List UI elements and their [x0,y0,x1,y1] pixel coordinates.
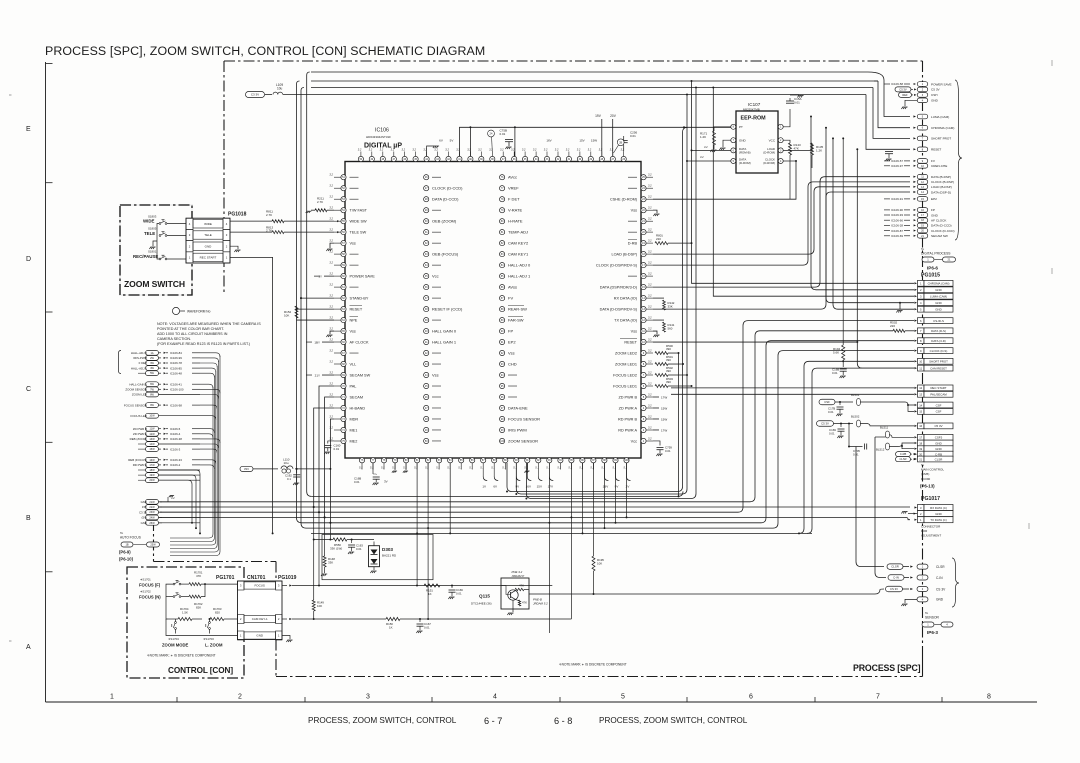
wire pin10 RESET long right [653,341,857,343]
svg-text:5.1: 5.1 [447,466,451,470]
svg-text:CAM KEY1: CAM KEY1 [508,251,529,256]
svg-text:(ROM-B): (ROM-B) [739,150,751,154]
svg-text:3.2: 3.2 [648,173,652,177]
svg-text:F DET: F DET [508,196,520,201]
svg-text:CLOCK (D-CCD): CLOCK (D-CCD) [931,229,955,233]
svg-text:CSH: CSH [931,93,938,97]
svg-text:0.01: 0.01 [424,625,430,629]
svg-text:SENSOR: SENSOR [925,616,940,620]
svg-text:RX DATA (IO): RX DATA (IO) [614,296,638,300]
svg-text:100: 100 [625,459,630,462]
svg-text:REF: REF [902,93,908,97]
svg-text:22W: 22W [149,506,155,509]
node 7W pin [146,387,159,392]
svg-text:IP6-3: IP6-3 [927,630,938,635]
svg-text:3.2: 3.2 [648,217,652,221]
svg-text:6 - 7: 6 - 7 [484,716,502,726]
svg-text:390: 390 [666,380,671,384]
svg-text:IC106-98: IC106-98 [170,403,182,407]
svg-text:FP: FP [931,208,935,212]
svg-text:RD PWR B: RD PWR B [618,417,637,421]
svg-text:24W: 24W [149,516,155,519]
svg-text:WAVEFORM No: WAVEFORM No [187,310,211,314]
svg-text:7W: 7W [150,388,154,391]
svg-text:15V: 15V [579,139,584,143]
svg-text:3.2: 3.2 [412,148,416,152]
svg-text:20W: 20W [149,479,155,482]
svg-text:3.2: 3.2 [329,250,333,254]
svg-text:3.2: 3.2 [648,206,652,210]
IC106 inner pin list column A [424,175,429,180]
svg-text:5.1: 5.1 [425,466,429,470]
off-page 21Y at SECAM SW [322,374,334,376]
wire RESET to left riser [297,308,335,310]
svg-text:3.2: 3.2 [329,228,333,232]
svg-text:3.2: 3.2 [329,184,333,188]
svg-text:AVss: AVss [508,284,517,289]
resistor R195 10K [593,534,595,556]
svg-text:7: 7 [876,694,880,701]
svg-text:∗S1701: ∗S1701 [140,578,151,582]
wire vertical risers 19V 20V [601,119,603,158]
junction focus riser [417,585,552,587]
svg-text:(P6-10): (P6-10) [119,557,134,562]
svg-text:FOR: FOR [921,529,928,533]
wire corner at x678 (bus end riser) [678,491,683,496]
svg-text:10u: 10u [284,461,289,465]
ground at IP6-3 GND [905,599,917,603]
svg-text:REC START: REC START [930,386,946,390]
wire vertical x691.5 (bus riser) [692,81,915,283]
svg-text:C5 3V: C5 3V [931,88,941,92]
svg-text:BL501: BL501 [851,393,860,397]
wire pin18 LOAD to DSP oval [653,187,910,254]
svg-text:2.7K: 2.7K [266,213,272,217]
svg-text:CAMERA SECTION.: CAMERA SECTION. [157,337,191,341]
svg-text:H-RATE: H-RATE [508,218,523,223]
svg-text:SECAM SW: SECAM SW [931,234,948,238]
svg-text:TELE: TELE [204,233,212,237]
svg-text:ZOOM LED2: ZOOM LED2 [615,351,637,355]
wire vertical x330 to D303 line [329,523,331,540]
svg-text:CSF5: CSF5 [935,436,943,440]
svg-text:F DET: F DET [139,361,148,365]
wire top bundle y87.5 [311,87,873,89]
svg-text:PG1015: PG1015 [921,273,940,279]
ferrite bead BL512 [886,443,890,450]
svg-text:DTC144EE (36): DTC144EE (36) [471,602,492,606]
capacitor C160 0.01 on ME2 [328,441,334,444]
svg-text:3W: 3W [150,362,154,365]
svg-text:IC106-38: IC106-38 [170,437,182,441]
svg-text:IC106-69: IC106-69 [891,234,903,238]
node 18W pin [146,468,159,473]
svg-text:3.2: 3.2 [555,148,559,152]
resistors R500-R504 390 on LED pins [655,352,668,355]
svg-text:23W: 23W [149,511,155,514]
svg-text:(FOR EXAMPLE READ R123 IS R112: (FOR EXAMPLE READ R123 IS R1123 IN PARTS… [157,342,250,346]
ferrite bead BL501 [857,399,861,406]
svg-text:FOCUS (F): FOCUS (F) [139,583,161,588]
svg-text:C5 3V: C5 3V [899,87,907,91]
svg-text:GND: GND [205,244,213,248]
svg-text:21W: 21W [149,501,155,504]
svg-text:CLOCK (B-DSP): CLOCK (B-DSP) [931,180,954,184]
capacitor C705 0.01 [849,424,863,447]
svg-text:16: 16 [919,424,922,428]
svg-text:IC106-93: IC106-93 [891,213,903,217]
wire pin17 CLOCK to DSP oval [653,182,910,265]
svg-text:33K: 33K [328,560,333,564]
svg-text:To: To [921,463,925,467]
wires left column bundle to auto focus [200,353,220,357]
wire nested vertical x678 from LED wires down [678,353,680,496]
svg-text:ME1: ME1 [350,428,358,432]
ground pin22 Vss [653,210,657,213]
svg-text:IC106-100: IC106-100 [170,388,184,392]
svg-text:CSF: CSF [936,403,942,407]
svg-text:FOCUS SENSOR: FOCUS SENSOR [124,403,147,407]
svg-text:PROCESS [SPC], ZOOM SWITCH, CO: PROCESS [SPC], ZOOM SWITCH, CONTROL [CON… [45,44,485,58]
capacitor C166 0.01 [451,585,453,587]
svg-text:3.2: 3.2 [329,338,333,342]
svg-text:(CM5): (CM5) [921,472,929,476]
svg-text:DATA (DSP/RDR/3-D): DATA (DSP/RDR/3-D) [600,285,638,289]
svg-text:BA221 RD: BA221 RD [382,554,397,558]
ground at pin57 Vss [330,243,334,248]
svg-text:CN1701: CN1701 [247,575,266,581]
node 11W pin [146,426,159,431]
svg-text:18W: 18W [149,469,155,472]
svg-text:DATA (D-DSP/RDV-S): DATA (D-DSP/RDV-S) [600,307,638,311]
svg-text:560: 560 [668,326,673,330]
svg-text:FP: FP [508,328,513,333]
IC106 inner pin list column B [500,175,505,180]
wire riser to C-IN IP6-3 [875,437,886,578]
control block outline [127,567,244,678]
IC106 left edge inner labels [350,176,359,178]
wire C3.3V rail y94.5 [265,94,272,96]
capacitor C160b 0.01 bottom left [372,463,374,474]
svg-text:3.2: 3.2 [610,148,614,152]
wire PG1018 REC START down to bus [272,258,274,533]
svg-text:IC106-3: IC106-3 [170,447,181,451]
svg-text:15W: 15W [149,448,155,451]
node 13W pin [146,437,159,442]
svg-text:BL502: BL502 [851,415,860,419]
svg-text:GND: GND [931,213,939,217]
svg-text:10u: 10u [277,87,283,91]
svg-text:FOCUS LED2: FOCUS LED2 [613,373,637,377]
svg-text:GND: GND [935,447,941,451]
svg-text:15W: 15W [661,406,667,410]
svg-text:ZD PWR A: ZD PWR A [133,432,147,436]
resistor R150 1K [386,617,400,620]
svg-text:NPE: NPE [350,318,358,322]
svg-text:OEB (FOCUS): OEB (FOCUS) [432,251,459,256]
svg-text:IC106-66: IC106-66 [891,218,903,222]
svg-text:(D-ROM): (D-ROM) [739,161,751,165]
svg-text:WIDE: WIDE [204,222,212,226]
svg-text:HALL-GAIN 1: HALL-GAIN 1 [129,382,147,386]
svg-text:3.2: 3.2 [566,148,570,152]
wires 21W-25W to buses [159,501,163,503]
node 6W pin [146,382,159,387]
svg-text:IC106-87: IC106-87 [891,229,903,233]
svg-text:M9255K7MB: M9255K7MB [743,108,760,112]
svg-text:OEB (ZOOM): OEB (ZOOM) [432,218,457,223]
node 23W pin [146,510,159,515]
svg-text:1K: 1K [389,625,393,629]
svg-text:5.6K: 5.6K [833,351,839,355]
svg-text:3.2: 3.2 [329,294,333,298]
svg-text:3.2: 3.2 [648,228,652,232]
svg-text:47K: 47K [794,147,799,151]
svg-text:33K: 33K [668,304,673,308]
svg-text:REC/PAUSE: REC/PAUSE [133,254,158,259]
wire FOCUS net right [282,585,287,587]
svg-text:3.2: 3.2 [329,283,333,287]
wire vertical from bottom pin to FOCUS [416,463,418,586]
svg-text:3.2: 3.2 [599,148,603,152]
ground at pin65 Vss [330,331,334,334]
svg-text:VCC: VCC [769,138,776,142]
wire bundle right corner to SHORT PROT [873,88,910,139]
svg-text:C5 3V: C5 3V [821,422,829,426]
svg-text:5.1: 5.1 [624,466,628,470]
svg-text:GND: GND [935,308,941,312]
svg-text:ZOOM LED1: ZOOM LED1 [615,362,637,366]
svg-text:CAM KEY-1: CAM KEY-1 [252,617,268,621]
svg-text:IC106-58: IC106-58 [891,82,903,86]
svg-text:0.01: 0.01 [354,480,360,484]
svg-text:IC106: IC106 [375,128,389,134]
wire top bundle y72 [311,71,868,73]
svg-text:100: 100 [500,440,505,443]
wire PAL down to control area [319,386,334,512]
svg-text:1BV: 1BV [603,485,609,489]
pin reference bubble 24 [488,130,495,137]
svg-text:15W: 15W [591,139,597,143]
node 22W pin [146,505,159,510]
pin reference bubble 2B [617,139,624,146]
svg-text:TELE SW: TELE SW [350,230,367,234]
svg-text:5.1: 5.1 [590,466,594,470]
svg-text:MAIN CONTROL: MAIN CONTROL [921,468,944,472]
svg-text:15W: 15W [661,417,667,421]
wire PG1018 GND [230,246,238,249]
svg-text:C3 3V: C3 3V [251,93,259,97]
svg-text:19: 19 [919,447,922,451]
svg-text:5.1: 5.1 [524,466,528,470]
svg-text:15V: 15V [537,485,542,489]
svg-text:To: To [120,531,124,535]
svg-text:0.01: 0.01 [665,449,671,453]
svg-text:17W: 17W [149,464,155,467]
svg-text:8: 8 [987,694,991,701]
wire vertical x552 from pin down [548,463,550,633]
svg-text:12: 12 [919,386,922,390]
svg-text:RESET: RESET [624,340,637,344]
svg-text:IC106-90: IC106-90 [891,208,903,212]
svg-text:11: 11 [919,366,922,370]
svg-text:LOAD (B-DSP): LOAD (B-DSP) [931,185,952,189]
svg-text:ADD 1000 TO ALL CIRCUIT NUMBER: ADD 1000 TO ALL CIRCUIT NUMBERS IN [157,332,228,336]
wire bottom descender k20 bus [582,463,584,533]
svg-text:S1801: S1801 [148,250,157,254]
svg-text:Vss: Vss [508,350,515,355]
svg-text:To: To [921,247,925,251]
svg-text:1V: 1V [482,485,486,489]
svg-text:3.2: 3.2 [329,272,333,276]
arrows into IP6-6 [913,115,916,117]
svg-text:HI-BAND: HI-BAND [350,406,366,410]
resistor R135 1.2K [783,143,812,150]
svg-text:DATA (B-DSP): DATA (B-DSP) [931,175,951,179]
svg-text:BL512: BL512 [876,448,885,452]
svg-text:IC106-97: IC106-97 [891,164,903,168]
switch bottoms to GND row [175,629,177,633]
diode D303 BA221 [369,546,380,567]
resistor R194 5.6K [842,138,844,345]
svg-text:Vcc: Vcc [631,439,637,443]
svg-text:3: 3 [366,694,370,701]
off-page 1BY at AF CLOCK [322,341,334,343]
svg-text:IC106-2: IC106-2 [170,463,181,467]
svg-text:(D-ROM): (D-ROM) [763,150,775,154]
wire vertical x833 to PG1015 row5 [833,138,914,309]
svg-text:IC106-84: IC106-84 [170,351,182,355]
svg-text:PG1019: PG1019 [278,575,297,581]
svg-text:220: 220 [656,237,661,241]
svg-text:Vss: Vss [350,241,356,245]
svg-text:3.2: 3.2 [329,173,333,177]
svg-text:9W: 9W [150,404,154,407]
svg-text:3.2: 3.2 [511,148,515,152]
svg-text:CHROMA (CAM): CHROMA (CAM) [931,126,954,130]
resistor R151 1K [424,584,440,587]
svg-text:6V: 6V [493,485,497,489]
svg-text:10W: 10W [149,415,155,418]
svg-text:E: E [26,126,31,133]
svg-text:ZOOM SENSOR: ZOOM SENSOR [508,438,538,443]
svg-text:RD PWR A: RD PWR A [618,428,637,432]
svg-text:CLSR: CLSR [891,565,898,569]
resistor R801 220 on D-RB [655,242,668,245]
node range ovals IP6-6 [922,257,934,262]
switch S1704 ZOOM MODE vertical [175,622,177,624]
IC IC107 EEP-ROM body [736,111,778,173]
wire RESET riser to CAM RESET row [857,149,914,368]
svg-text:3.2: 3.2 [329,261,333,265]
svg-text:C-IN: C-IN [893,576,899,580]
svg-text:3.2: 3.2 [648,283,652,287]
svg-text:FOCUS: FOCUS [254,584,265,588]
wire IC107 pin6 [692,149,731,151]
svg-text:(P6-9): (P6-9) [119,550,131,555]
resistor R171 1.2K at IC107 pin8 [714,127,731,131]
svg-text:EEP-ROM: EEP-ROM [741,116,767,122]
svg-text:1K: 1K [428,592,432,596]
svg-text:CS 3V: CS 3V [890,587,898,591]
svg-text:D303: D303 [382,547,393,552]
svg-text:6: 6 [749,694,753,701]
svg-text:0.01: 0.01 [334,447,340,451]
svg-text:DIGITAL PROCESS: DIGITAL PROCESS [921,252,951,256]
svg-text:T/W FAST: T/W FAST [350,208,368,212]
IC107 left pins [731,124,736,129]
svg-text:3.2: 3.2 [648,195,652,199]
wire HI-BAND down [314,408,334,507]
IC106 top pin stubs [360,152,362,157]
svg-text:REC START: REC START [200,256,217,260]
svg-text:CSHE (D-ROM): CSHE (D-ROM) [610,197,638,201]
svg-text:1.5K: 1.5K [182,610,188,614]
brace IP6-6 [955,80,962,240]
wire MDR down [330,419,334,523]
svg-text:FV: FV [508,295,513,300]
svg-text:CS 3V: CS 3V [936,587,946,591]
wire Q115 output to CS 3V [529,589,884,594]
svg-text:17: 17 [919,436,922,440]
svg-text:16V: 16V [526,485,531,489]
svg-text:(P6-13): (P6-13) [920,484,935,489]
wire bus risers to PG1015 rows 6-11 [750,331,893,502]
board outline dash-dot top [224,60,923,62]
svg-text:DATA (D-CCD): DATA (D-CCD) [432,196,459,201]
svg-text:3.2: 3.2 [329,305,333,309]
svg-text:20V: 20V [610,114,617,118]
wire L110 rail [253,468,278,470]
wire STAND-BY to left riser [301,297,334,299]
node 2W pin [146,356,159,361]
switch common wires [157,224,159,260]
svg-text:ME2: ME2 [350,439,358,443]
svg-text:(D-ROM): (D-ROM) [763,161,775,165]
svg-text:390: 390 [666,369,671,373]
svg-text:2: 2 [238,694,242,701]
svg-text:3.2: 3.2 [329,195,333,199]
svg-text:3.2: 3.2 [456,148,460,152]
svg-text:3.2: 3.2 [522,148,526,152]
wire WIDE SW to PG1018 [284,220,334,222]
IC106 left pin stubs [334,176,341,178]
svg-text:FAR-SW: FAR-SW [508,317,524,322]
ground at PG1015 rows4-5 [899,303,901,310]
resistor R149 10K [312,600,315,611]
IC106 right pins [641,175,646,180]
svg-text:16W: 16W [149,459,155,462]
node C-IN tag [888,575,904,581]
svg-text:0.01: 0.01 [794,101,800,105]
svg-text:TEMP-ADJ: TEMP-ADJ [508,229,528,234]
ferrite bead BL511 [886,431,890,438]
ground at IC107 pin7 [723,140,731,147]
svg-text:3.2: 3.2 [648,327,652,331]
svg-text:EP2: EP2 [508,339,516,344]
svg-text:LUMA (CAM): LUMA (CAM) [931,115,949,119]
node REF tag at IP6-6 [899,92,912,97]
svg-text:CAM RESET: CAM RESET [930,366,947,370]
svg-text:JRDAM P: JRDAM P [512,574,525,578]
resistor R148 33K [323,556,326,567]
svg-text:RESET: RESET [350,307,363,311]
svg-text:47K: 47K [522,601,527,605]
svg-text:17W: 17W [661,428,667,432]
svg-text:CLSR: CLSR [936,565,945,569]
svg-text:A: A [26,644,31,651]
svg-text:6W: 6W [150,383,154,386]
